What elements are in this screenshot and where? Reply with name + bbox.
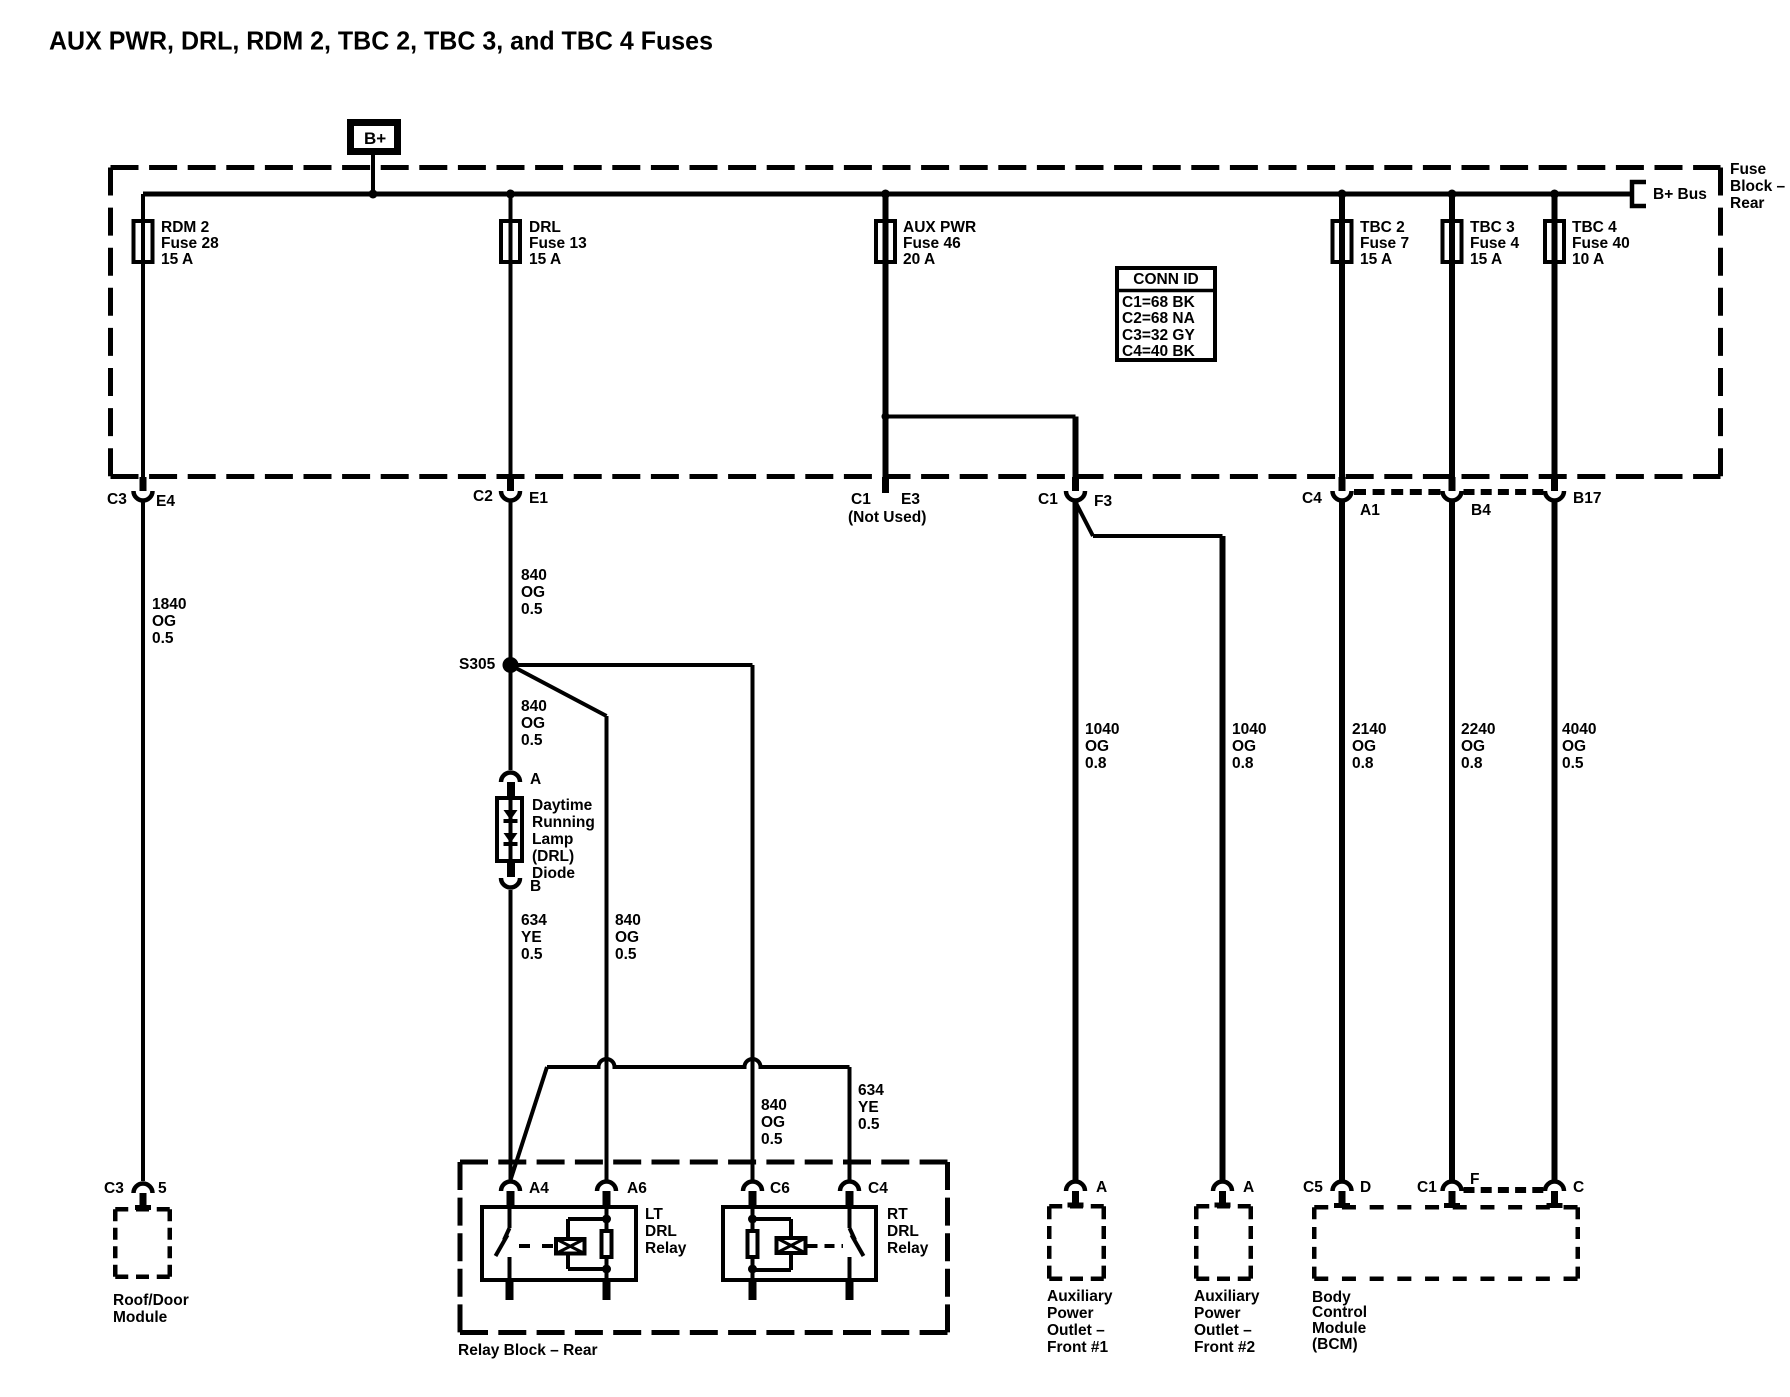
svg-text:C5: C5 xyxy=(1303,1179,1323,1196)
svg-text:TBC 2: TBC 2 xyxy=(1360,219,1405,236)
svg-text:B+: B+ xyxy=(364,129,386,148)
svg-text:2140: 2140 xyxy=(1352,721,1386,738)
svg-text:(BCM): (BCM) xyxy=(1312,1336,1358,1353)
svg-text:A: A xyxy=(1096,1179,1107,1196)
svg-text:E1: E1 xyxy=(529,490,548,507)
svg-text:Lamp: Lamp xyxy=(532,831,573,848)
svg-text:C2=68 NA: C2=68 NA xyxy=(1122,310,1195,327)
svg-text:AUX PWR: AUX PWR xyxy=(903,219,976,236)
svg-text:Fuse 46: Fuse 46 xyxy=(903,235,961,252)
svg-text:Auxiliary: Auxiliary xyxy=(1194,1288,1260,1305)
svg-text:C1: C1 xyxy=(1038,491,1058,508)
svg-text:Outlet –: Outlet – xyxy=(1047,1322,1105,1339)
svg-text:0.8: 0.8 xyxy=(1085,755,1107,772)
svg-text:840: 840 xyxy=(521,567,547,584)
svg-text:OG: OG xyxy=(1232,738,1256,755)
svg-text:B17: B17 xyxy=(1573,490,1601,507)
svg-text:TBC 4: TBC 4 xyxy=(1572,219,1617,236)
svg-text:Module: Module xyxy=(113,1309,168,1326)
svg-text:840: 840 xyxy=(615,912,641,929)
svg-text:OG: OG xyxy=(761,1114,785,1131)
svg-text:DRL: DRL xyxy=(887,1223,919,1240)
svg-text:Block –: Block – xyxy=(1730,178,1786,195)
svg-text:634: 634 xyxy=(521,912,547,929)
svg-text:E3: E3 xyxy=(901,491,920,508)
svg-text:Relay: Relay xyxy=(645,1240,687,1257)
svg-text:15 A: 15 A xyxy=(529,251,561,268)
svg-text:Front #1: Front #1 xyxy=(1047,1339,1109,1356)
svg-text:Fuse 40: Fuse 40 xyxy=(1572,235,1630,252)
svg-text:C6: C6 xyxy=(770,1180,790,1197)
svg-text:Fuse 4: Fuse 4 xyxy=(1470,235,1519,252)
svg-text:0.5: 0.5 xyxy=(521,601,543,618)
svg-text:TBC 3: TBC 3 xyxy=(1470,219,1515,236)
svg-text:1040: 1040 xyxy=(1232,721,1266,738)
svg-text:Fuse 28: Fuse 28 xyxy=(161,235,219,252)
svg-text:OG: OG xyxy=(152,613,176,630)
svg-text:Running: Running xyxy=(532,814,595,831)
svg-text:A: A xyxy=(1243,1179,1254,1196)
svg-text:YE: YE xyxy=(521,929,542,946)
svg-text:A6: A6 xyxy=(627,1180,647,1197)
svg-text:D: D xyxy=(1360,1179,1371,1196)
svg-text:E4: E4 xyxy=(156,493,175,510)
svg-text:AUX PWR, DRL, RDM 2, TBC 2, TB: AUX PWR, DRL, RDM 2, TBC 2, TBC 3, and T… xyxy=(49,26,713,56)
svg-text:0.5: 0.5 xyxy=(1562,755,1584,772)
svg-text:Fuse 7: Fuse 7 xyxy=(1360,235,1409,252)
svg-text:Power: Power xyxy=(1047,1305,1094,1322)
svg-text:C3: C3 xyxy=(104,1180,124,1197)
svg-text:Roof/Door: Roof/Door xyxy=(113,1292,189,1309)
svg-text:C1: C1 xyxy=(1417,1179,1437,1196)
svg-text:0.5: 0.5 xyxy=(521,946,543,963)
svg-text:Relay Block – Rear: Relay Block – Rear xyxy=(458,1342,598,1359)
svg-text:840: 840 xyxy=(761,1097,787,1114)
svg-text:Module: Module xyxy=(1312,1320,1367,1337)
svg-text:C4=40 BK: C4=40 BK xyxy=(1122,343,1196,360)
svg-text:2240: 2240 xyxy=(1461,721,1495,738)
svg-text:C4: C4 xyxy=(868,1180,888,1197)
svg-text:YE: YE xyxy=(858,1099,879,1116)
svg-text:B: B xyxy=(530,878,541,895)
svg-text:0.5: 0.5 xyxy=(521,732,543,749)
svg-text:LT: LT xyxy=(645,1206,663,1223)
svg-text:OG: OG xyxy=(521,715,545,732)
svg-text:C2: C2 xyxy=(473,488,493,505)
svg-text:C3=32 GY: C3=32 GY xyxy=(1122,327,1195,344)
svg-text:OG: OG xyxy=(1352,738,1376,755)
svg-text:OG: OG xyxy=(615,929,639,946)
svg-text:0.8: 0.8 xyxy=(1352,755,1374,772)
svg-text:Daytime: Daytime xyxy=(532,797,593,814)
svg-text:1840: 1840 xyxy=(152,596,186,613)
svg-text:DRL: DRL xyxy=(645,1223,677,1240)
svg-text:5: 5 xyxy=(158,1180,167,1197)
svg-text:Relay: Relay xyxy=(887,1240,929,1257)
svg-text:OG: OG xyxy=(1562,738,1586,755)
svg-text:1040: 1040 xyxy=(1085,721,1119,738)
svg-text:S305: S305 xyxy=(459,656,496,673)
svg-text:0.8: 0.8 xyxy=(1461,755,1483,772)
svg-text:Fuse 13: Fuse 13 xyxy=(529,235,587,252)
svg-text:OG: OG xyxy=(521,584,545,601)
svg-text:C: C xyxy=(1573,1179,1584,1196)
svg-text:RDM 2: RDM 2 xyxy=(161,219,209,236)
svg-text:C1: C1 xyxy=(851,491,871,508)
svg-text:A1: A1 xyxy=(1360,502,1380,519)
svg-text:DRL: DRL xyxy=(529,219,561,236)
svg-text:C1=68 BK: C1=68 BK xyxy=(1122,294,1196,311)
svg-text:(DRL): (DRL) xyxy=(532,848,574,865)
svg-text:Fuse: Fuse xyxy=(1730,161,1767,178)
svg-text:F3: F3 xyxy=(1094,493,1112,510)
svg-text:840: 840 xyxy=(521,698,547,715)
svg-text:B+ Bus: B+ Bus xyxy=(1653,186,1707,203)
svg-text:0.5: 0.5 xyxy=(761,1131,783,1148)
svg-text:A4: A4 xyxy=(529,1180,549,1197)
svg-text:OG: OG xyxy=(1085,738,1109,755)
svg-text:4040: 4040 xyxy=(1562,721,1596,738)
svg-text:CONN ID: CONN ID xyxy=(1133,271,1198,288)
svg-text:B4: B4 xyxy=(1471,502,1491,519)
svg-text:F: F xyxy=(1470,1171,1479,1188)
svg-text:Rear: Rear xyxy=(1730,195,1764,212)
svg-text:0.5: 0.5 xyxy=(615,946,637,963)
svg-text:0.5: 0.5 xyxy=(858,1116,880,1133)
svg-text:15 A: 15 A xyxy=(1360,251,1392,268)
svg-text:(Not Used): (Not Used) xyxy=(848,509,926,526)
svg-text:10 A: 10 A xyxy=(1572,251,1604,268)
svg-text:15 A: 15 A xyxy=(1470,251,1502,268)
svg-text:15 A: 15 A xyxy=(161,251,193,268)
svg-text:20 A: 20 A xyxy=(903,251,935,268)
svg-text:Outlet –: Outlet – xyxy=(1194,1322,1252,1339)
svg-text:Front #2: Front #2 xyxy=(1194,1339,1255,1356)
svg-text:Auxiliary: Auxiliary xyxy=(1047,1288,1113,1305)
svg-text:Control: Control xyxy=(1312,1304,1367,1321)
svg-text:0.5: 0.5 xyxy=(152,630,174,647)
svg-text:OG: OG xyxy=(1461,738,1485,755)
svg-text:C4: C4 xyxy=(1302,490,1322,507)
svg-text:RT: RT xyxy=(887,1206,908,1223)
svg-text:0.8: 0.8 xyxy=(1232,755,1254,772)
svg-text:634: 634 xyxy=(858,1082,884,1099)
svg-text:Power: Power xyxy=(1194,1305,1241,1322)
svg-text:A: A xyxy=(530,771,541,788)
svg-text:C3: C3 xyxy=(107,491,127,508)
